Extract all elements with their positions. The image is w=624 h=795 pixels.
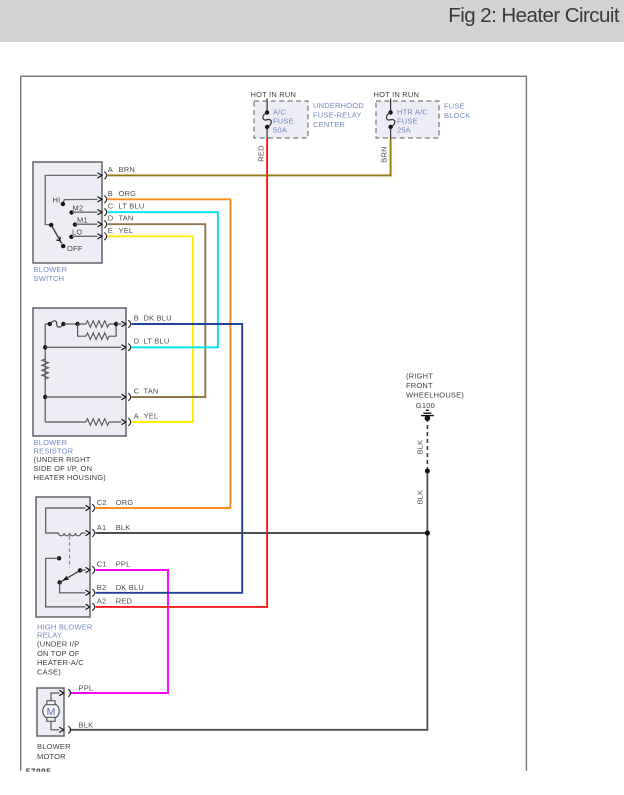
PPL wire label <box>79 684 94 693</box>
wire ORG: blower switch B to high blower relay C2 <box>96 199 231 508</box>
svg-text:YEL: YEL <box>119 226 134 235</box>
svg-text:HEATER HOUSING): HEATER HOUSING) <box>34 473 107 482</box>
svg-text:FRONT: FRONT <box>406 381 433 390</box>
fuse F2 HTR A/C FUSE 25A element <box>386 99 394 139</box>
wire RED: A/C fuse to high blower relay A2 <box>96 138 268 607</box>
svg-text:C1: C1 <box>97 560 107 569</box>
relay coil and contacts <box>46 505 90 609</box>
wire BLK: high blower relay A1 to G100 junction <box>96 532 428 534</box>
BLOWER RESISTOR label <box>34 438 74 455</box>
svg-text:SWITCH: SWITCH <box>34 274 65 283</box>
fuse block box (dashed) <box>376 101 439 138</box>
motor terminal connectors <box>68 689 70 733</box>
svg-text:E: E <box>108 226 113 235</box>
relay terminal connectors C2 A1 C1 B2 A2 <box>92 504 94 611</box>
wire BRN: blower switch A to HTR A/C fuse <box>108 138 391 175</box>
HTR A/C FUSE 25A value label <box>397 108 428 135</box>
blower switch S1 box <box>33 162 102 263</box>
wire BLK: blower motor to ground G100 <box>70 471 428 730</box>
svg-text:BRN: BRN <box>119 165 135 174</box>
pin B label DK BLU <box>134 313 172 322</box>
BLK label rotated (lower) <box>415 490 424 505</box>
svg-text:HI: HI <box>53 196 61 205</box>
svg-text:DK BLU: DK BLU <box>116 583 144 592</box>
svg-text:SIDE OF I/P, ON: SIDE OF I/P, ON <box>34 464 93 473</box>
fuse F1 A/C FUSE 50A element <box>263 99 271 139</box>
svg-text:B: B <box>108 189 113 198</box>
pin D label LT BLU <box>134 337 170 346</box>
svg-text:HOT IN RUN: HOT IN RUN <box>251 90 297 99</box>
relay location note <box>37 639 84 676</box>
resistor terminal connectors B D C A <box>128 320 130 426</box>
ground G100 location note <box>406 372 464 400</box>
title bar <box>0 0 624 42</box>
svg-text:50A: 50A <box>273 126 287 135</box>
underhood fuse-relay center box (dashed) <box>254 101 308 138</box>
blower resistor R1 box <box>33 308 126 436</box>
svg-text:LT BLU: LT BLU <box>119 202 145 211</box>
svg-text:BLOCK: BLOCK <box>444 111 470 120</box>
svg-text:LO: LO <box>72 228 82 237</box>
blower switch internal wiper and contacts <box>45 173 102 249</box>
wire DK BLU: blower resistor B to high blower relay B2 <box>96 324 243 593</box>
svg-text:RED: RED <box>257 145 266 162</box>
svg-text:BLK: BLK <box>79 720 94 729</box>
HIGH BLOWER RELAY label <box>37 622 93 639</box>
svg-text:(RIGHT: (RIGHT <box>406 372 433 381</box>
wire BLK dashed segment to G100 <box>426 421 428 472</box>
HOT IN RUN label (left) <box>251 90 297 99</box>
HOT IN RUN label (right) <box>374 90 420 99</box>
ground junction dot <box>425 415 431 421</box>
svg-text:C: C <box>108 202 114 211</box>
svg-text:B2: B2 <box>97 583 107 592</box>
BLK wire label <box>79 720 94 729</box>
svg-text:BLK: BLK <box>415 490 424 505</box>
svg-text:HTR A/C: HTR A/C <box>397 108 428 117</box>
pin A label YEL <box>134 411 158 420</box>
blower motor M1 box <box>37 688 64 736</box>
svg-text:TAN: TAN <box>144 386 159 395</box>
pin B label ORG <box>108 189 136 198</box>
svg-text:A: A <box>108 165 113 174</box>
svg-text:BLOWER: BLOWER <box>34 265 68 274</box>
title text <box>448 4 620 27</box>
resistor internal network <box>42 321 126 426</box>
svg-text:D: D <box>108 214 114 223</box>
svg-text:(UNDER RIGHT: (UNDER RIGHT <box>34 455 91 464</box>
svg-text:UNDERHOOD: UNDERHOOD <box>313 101 364 110</box>
pin C2 label ORG <box>97 498 134 507</box>
RED wire label (rotated) <box>257 145 266 162</box>
motor symbol <box>43 690 64 732</box>
wire PPL: high blower relay C1 to blower motor <box>70 570 169 693</box>
svg-text:(UNDER I/P: (UNDER I/P <box>37 639 79 648</box>
svg-text:CENTER: CENTER <box>313 120 345 129</box>
svg-text:DK BLU: DK BLU <box>144 313 172 322</box>
svg-text:RELAY: RELAY <box>37 631 62 640</box>
pin C1 label PPL <box>97 560 131 569</box>
svg-text:FUSE-RELAY: FUSE-RELAY <box>313 111 362 120</box>
pin B2 label DK BLU <box>97 583 144 592</box>
svg-text:C2: C2 <box>97 498 107 507</box>
node G100 label <box>416 401 435 410</box>
wire TAN: blower switch D to blower resistor C <box>108 224 206 397</box>
svg-text:D: D <box>134 337 140 346</box>
pin A2 label RED <box>97 596 133 605</box>
svg-text:M: M <box>47 706 56 718</box>
svg-text:MOTOR: MOTOR <box>37 752 66 761</box>
svg-text:M1: M1 <box>77 216 88 225</box>
svg-text:C: C <box>134 386 140 395</box>
svg-text:BLK: BLK <box>116 523 131 532</box>
BLOWER SWITCH label <box>34 265 68 283</box>
UNDERHOOD FUSE-RELAY CENTER label <box>313 101 364 129</box>
svg-text:LT BLU: LT BLU <box>144 337 170 346</box>
svg-text:PPL: PPL <box>79 684 94 693</box>
svg-text:OFF: OFF <box>67 244 83 253</box>
svg-text:M2: M2 <box>73 204 84 213</box>
BLK label rotated (upper) <box>415 440 424 455</box>
svg-text:A1: A1 <box>97 523 107 532</box>
pin A label BRN <box>108 165 135 174</box>
svg-text:A/C: A/C <box>273 108 286 117</box>
svg-text:BRN: BRN <box>380 146 389 162</box>
wire YEL: blower switch E to blower resistor A <box>108 236 194 422</box>
pin A1 label BLK <box>97 523 131 532</box>
svg-text:WHEELHOUSE): WHEELHOUSE) <box>406 391 464 400</box>
svg-text:HEATER-A/C: HEATER-A/C <box>37 658 84 667</box>
wire LT BLU: blower switch C to blower resistor D <box>108 212 218 347</box>
svg-text:A2: A2 <box>97 596 107 605</box>
svg-text:FUSE: FUSE <box>273 117 294 126</box>
svg-text:G100: G100 <box>416 401 435 410</box>
svg-text:CASE): CASE) <box>37 667 61 676</box>
svg-text:A: A <box>134 411 139 420</box>
pin C label TAN <box>134 386 159 395</box>
svg-text:PPL: PPL <box>116 560 131 569</box>
pin D label TAN <box>108 214 134 223</box>
pin C label LT BLU <box>108 202 145 211</box>
svg-text:BLK: BLK <box>415 440 424 455</box>
high blower relay K1 box <box>36 497 90 617</box>
svg-text:BLOWER: BLOWER <box>37 742 71 751</box>
svg-text:25A: 25A <box>397 126 411 135</box>
ground symbol G100 <box>421 410 434 415</box>
switch terminal connectors A B C D E <box>104 172 106 241</box>
svg-text:Fig 2: Heater Circuit: Fig 2: Heater Circuit <box>448 4 620 27</box>
FUSE BLOCK label <box>444 102 470 121</box>
svg-text:FUSE: FUSE <box>397 117 418 126</box>
junction dot: relay A1 BLK meets ground wire <box>425 530 430 535</box>
BLOWER MOTOR label <box>37 742 71 761</box>
BRN wire label (rotated) <box>380 146 389 162</box>
svg-text:TAN: TAN <box>119 214 134 223</box>
svg-text:RESISTOR: RESISTOR <box>34 446 74 455</box>
svg-text:ON TOP OF: ON TOP OF <box>37 649 80 658</box>
diagram number 57995 (clipped at frame bottom) <box>26 767 52 776</box>
A/C FUSE 50A value label <box>273 108 294 135</box>
svg-text:YEL: YEL <box>144 411 159 420</box>
svg-text:FUSE: FUSE <box>444 102 465 111</box>
svg-text:HOT IN RUN: HOT IN RUN <box>374 90 420 99</box>
svg-text:RED: RED <box>116 596 133 605</box>
splice junction dot <box>425 469 430 474</box>
resistor location note <box>34 455 107 482</box>
svg-text:ORG: ORG <box>116 498 134 507</box>
svg-text:B: B <box>134 313 139 322</box>
switch position labels HI M2 M1 LO OFF <box>53 196 88 254</box>
pin E label YEL <box>108 226 133 235</box>
svg-text:ORG: ORG <box>119 189 137 198</box>
diagram frame <box>21 76 527 771</box>
